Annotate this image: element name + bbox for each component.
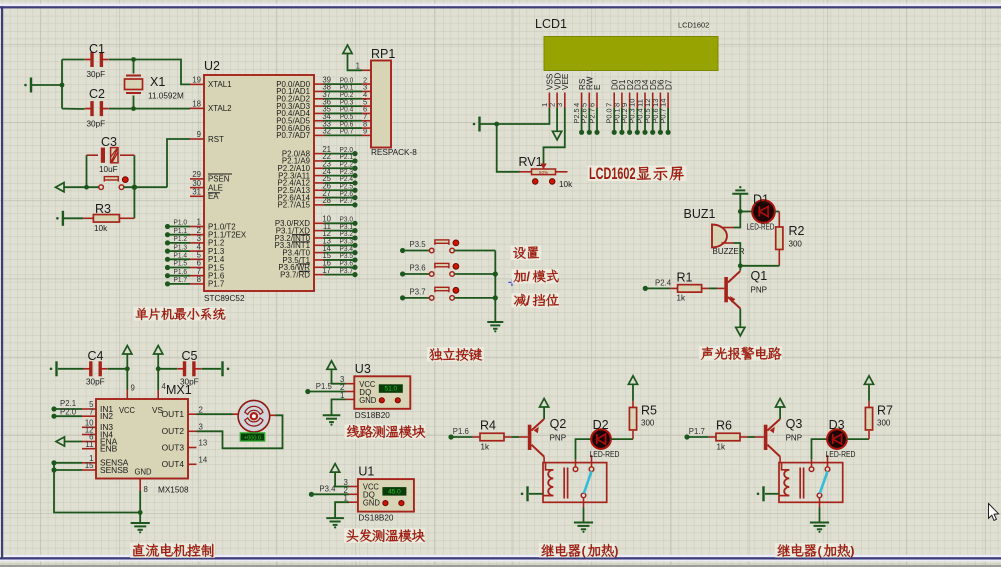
svg-text:300: 300 [789,240,803,249]
svg-text:C1: C1 [89,42,105,56]
svg-text:8: 8 [197,275,201,284]
LED D3 [812,418,856,460]
power arrow [540,399,549,420]
svg-text:P2.4: P2.4 [655,278,672,287]
net label P1.6 [448,427,472,439]
svg-text:P3.6: P3.6 [410,263,426,272]
crystal X1 [125,60,184,109]
wire [64,186,99,188]
ground (top) [732,186,748,194]
svg-text:C4: C4 [88,349,104,363]
MX1 left pins [82,400,129,475]
node junction [84,185,89,190]
LED D2 [576,418,620,460]
svg-text:LED-RED: LED-RED [747,223,775,232]
svg-text:LCD1602: LCD1602 [678,21,709,30]
U3 GND wire and ground [323,399,346,425]
svg-text:10uF: 10uF [99,165,118,174]
node junction [125,366,161,371]
OUT2 wire to motor [197,415,283,448]
resistor R7 [847,401,893,439]
power arrow VCC [123,346,132,369]
U3 pins [340,375,354,400]
P3 net wires [325,215,358,278]
wire [748,436,756,438]
svg-text:300: 300 [641,419,655,428]
svg-text:Q3: Q3 [786,417,803,431]
svg-text:P1.6: P1.6 [453,427,469,436]
motor driver MX1 body [96,383,192,495]
wire [740,265,779,267]
wire bus to ground [493,251,498,323]
svg-text:VEE: VEE [561,73,570,90]
svg-text:RP1: RP1 [371,47,395,61]
svg-text:DS18B20: DS18B20 [355,411,390,420]
VS pin 4 wire [158,369,166,399]
svg-text:30pF: 30pF [87,70,106,79]
svg-text:): ) [614,544,618,558]
relay switch blade [584,471,592,493]
svg-text:P1.7: P1.7 [208,280,224,289]
svg-text:OUT3: OUT3 [162,442,185,452]
ground [487,322,503,332]
svg-text:OUT2: OUT2 [162,426,185,436]
svg-text:11: 11 [85,440,93,449]
resistor R2 [776,212,805,266]
microcontroller U2 body [204,59,314,303]
svg-text:IN2: IN2 [100,411,113,421]
svg-text:14: 14 [199,456,208,465]
capacitor C2 [62,87,109,129]
power arrow (left) [56,183,65,192]
U3 DQ net wire [305,382,345,394]
svg-text:13: 13 [199,439,208,448]
svg-text:D1: D1 [753,193,769,207]
svg-text:LCD1: LCD1 [535,17,567,31]
svg-text:3: 3 [199,423,203,432]
svg-text:(: ( [582,544,586,558]
svg-text:6: 6 [587,103,596,107]
label 线路测温模块 [344,424,425,439]
label jia/moshi [512,269,559,284]
node junction [738,209,743,214]
svg-text:DS18B20: DS18B20 [358,514,393,523]
svg-text:R2: R2 [789,224,805,238]
svg-text:18: 18 [192,100,201,109]
VCC pin 9 wire [127,369,135,399]
origin marker [508,279,515,286]
wire [779,457,781,463]
U1 pins [344,478,358,503]
capacitor C4 [58,349,127,387]
wire [739,266,741,271]
label zhi liu dian ji kong zhi [130,543,215,558]
svg-text:3: 3 [555,103,564,107]
U1 indicator dots [383,501,404,506]
svg-text:U2: U2 [204,59,220,73]
svg-text:U1: U1 [358,465,374,479]
terminal [473,117,480,132]
ground [131,523,150,533]
U3 VCC wire and power arrow [327,361,346,384]
svg-text:31: 31 [192,188,201,197]
svg-text:ALE: ALE [208,183,223,192]
svg-text:P1.7: P1.7 [174,275,188,284]
node junction [131,57,136,111]
svg-text:RESPACK-8: RESPACK-8 [371,148,417,157]
svg-text:OUT1: OUT1 [162,409,185,419]
svg-text:50%: 50% [539,170,548,175]
wire [709,287,717,289]
power arrow for RP1 [343,45,362,70]
wire to ground [583,508,585,523]
svg-text:XTAL1: XTAL1 [208,80,232,89]
transistor Q1 (PNP) [717,269,767,309]
wire [734,194,741,228]
capacitor C3 (polarized) [87,135,135,174]
wire [109,60,190,85]
wire [61,60,63,109]
svg-text:Q1: Q1 [751,269,768,283]
svg-text:C5: C5 [182,349,198,363]
resistor R4 [473,419,512,452]
svg-text:ENB: ENB [100,444,118,454]
svg-text:P2.7: P2.7 [340,196,354,205]
label du li an jian [427,347,484,362]
U3 indicator dots [379,398,400,403]
wire to ground [819,508,821,523]
svg-text:/: / [526,293,530,308]
svg-text:RV1: RV1 [519,155,543,169]
svg-text:U3: U3 [355,362,371,376]
svg-text:9: 9 [131,384,135,393]
svg-text:P0.7: P0.7 [340,127,354,136]
svg-text:1k: 1k [717,443,726,452]
svg-text:XTAL2: XTAL2 [208,104,232,113]
relay switch blade [820,471,828,493]
ground [810,523,829,533]
transistor Q3 (PNP) [755,417,802,457]
OUT1 wire to motor [197,413,233,415]
GND pin 8 wire [140,479,148,524]
svg-text:45.0: 45.0 [388,488,401,495]
svg-text:300: 300 [877,419,891,428]
relay RL1 [543,455,607,507]
svg-text:): ) [850,544,854,558]
motor rpm display [240,433,264,441]
wire [739,309,741,328]
resistor pack RP1 [356,47,418,157]
U1 GND wire and ground [326,502,349,528]
motor [233,400,277,432]
button P3.6 [400,263,495,276]
wire [512,436,520,438]
svg-text:30pF: 30pF [87,120,106,129]
buzzer BUZ1 [684,207,745,256]
svg-text:P0.7/AD7: P0.7/AD7 [276,131,310,140]
LCD signal net labels and wires [572,108,671,135]
wire [109,108,190,110]
power arrow VS [154,346,163,369]
wire [133,155,135,218]
resistor R6 [709,419,748,452]
label LCD1602 xian shi ping [588,164,687,183]
label she zhi [511,246,542,261]
svg-text:GND: GND [135,468,152,477]
node junction [738,263,743,268]
terminal [56,211,63,226]
svg-text:LED-RED: LED-RED [590,450,620,459]
potentiometer RV1 [519,155,574,189]
wire [734,243,741,266]
wire [86,155,88,187]
terminal (coil) [521,486,543,501]
svg-text:X1: X1 [150,75,165,89]
svg-text:P3.7: P3.7 [340,266,354,275]
svg-text:OUT4: OUT4 [162,459,185,469]
VSS ground wire [480,108,550,124]
svg-text:PNP: PNP [786,434,802,443]
label dan pian ji zui xiao xi tong [134,307,226,321]
temperature module U3 body [354,362,410,420]
transistor Q2 (PNP) [519,417,566,457]
wire [124,186,167,188]
svg-text:GND: GND [363,499,380,508]
label sheng guang bao jing dian lu [699,346,782,361]
LCD1 display body [535,17,718,71]
svg-text:8: 8 [144,485,148,494]
svg-text:LED-RED: LED-RED [826,450,856,459]
svg-text:+000.0: +000.0 [244,435,261,441]
SENSA SENSB wires [51,460,140,512]
node junction [494,122,499,127]
reset button [99,177,128,190]
svg-text:P1.7: P1.7 [689,427,705,436]
svg-text:2: 2 [199,405,203,414]
node junction [132,185,137,190]
svg-text:30: 30 [192,179,201,188]
svg-text:10k: 10k [94,224,108,233]
svg-text:1k: 1k [677,294,686,303]
svg-text:R5: R5 [641,404,657,418]
svg-text:P0.7: P0.7 [659,108,668,123]
capacitor C1 [62,42,109,79]
svg-text:GND: GND [359,396,376,405]
svg-text:30pF: 30pF [86,378,105,387]
svg-text:7: 7 [89,407,93,416]
U2 left pins (stubs, numbers, names) [190,76,247,289]
P1 net wires [165,218,190,287]
svg-text:P3.7/RD: P3.7/RD [280,270,310,279]
svg-text:VCC: VCC [119,406,135,415]
resistor R1 [643,271,709,303]
svg-text:19: 19 [192,76,201,85]
svg-text:P3.5: P3.5 [410,240,427,249]
svg-text:P1.5: P1.5 [316,382,333,391]
svg-text:RST: RST [208,135,224,144]
U1 DQ net wire [309,485,349,497]
svg-text:P2.0: P2.0 [60,408,77,417]
temperature module U1 body [358,465,414,523]
relay RL2 [779,455,843,507]
power arrow (down) [736,327,745,336]
LCD pins (names, numbers, stubs) [540,73,674,108]
wire [775,211,780,213]
MX1 right pins [162,405,208,469]
svg-text:PNP: PNP [751,286,767,295]
svg-text:29: 29 [192,170,201,179]
svg-text:1k: 1k [481,443,490,452]
svg-text:4: 4 [162,382,167,391]
svg-text:D7: D7 [664,79,673,90]
svg-text:R6: R6 [716,419,732,433]
capacitor C5 [158,349,221,387]
svg-text:SENSB: SENSB [100,465,129,475]
label ji dian qi (jia re) [539,543,618,558]
U2 right pins (stubs, numbers, names) [274,75,331,279]
ground [574,523,593,533]
power arrow [628,376,637,401]
svg-text:P3.4: P3.4 [319,485,336,494]
button P3.7 [400,287,495,300]
node junction [138,510,143,515]
svg-text:D3: D3 [829,418,845,432]
svg-text:/: / [526,269,530,284]
terminal [50,361,57,376]
svg-text:D2: D2 [593,418,609,432]
label ji dian qi (jia re) [775,543,854,558]
resistor R5 [611,401,657,439]
svg-text:11.0592M: 11.0592M [148,92,184,101]
svg-text:STC89C52: STC89C52 [204,294,245,303]
svg-text:MX1508: MX1508 [158,486,189,495]
svg-text:BUZ1: BUZ1 [684,207,716,221]
node junction [60,83,65,88]
svg-text:15: 15 [85,461,94,470]
svg-text:R7: R7 [877,404,893,418]
net label P1.7 [684,427,708,439]
LED D1 [740,193,775,232]
svg-text:(: ( [818,544,822,558]
svg-text:C2: C2 [89,87,105,101]
svg-text:LCD1602: LCD1602 [589,164,636,183]
terminal (coil) [757,486,779,501]
wire [31,84,62,86]
svg-text:P2.7/A15: P2.7/A15 [278,201,311,210]
svg-text:30pF: 30pF [180,378,199,387]
U1 VCC wire and power arrow [331,464,350,487]
mouse cursor [989,504,999,521]
svg-text:14: 14 [659,99,668,107]
svg-text:R1: R1 [677,271,693,285]
label 头发测温模块 [344,528,425,543]
svg-text:PSEN: PSEN [208,175,230,184]
P2 net wires [325,145,358,208]
power arrow [776,399,785,420]
svg-text:10k: 10k [559,180,573,189]
svg-text:P3.7: P3.7 [410,287,426,296]
svg-text:PNP: PNP [550,434,566,443]
VDD power arrow (down) [553,108,562,140]
svg-text:R4: R4 [480,419,496,433]
button P3.5 [400,240,495,253]
svg-text:1: 1 [356,62,360,71]
terminal [223,361,230,376]
wire to RST [167,139,190,187]
power arrow ENA (left) [56,437,82,446]
svg-text:9: 9 [197,130,201,139]
U3 display [379,384,403,393]
resistor R3 [64,202,134,233]
svg-text:51.0: 51.0 [384,386,397,393]
P2.1 P2.0 net wires [51,399,82,419]
svg-text:P2.7: P2.7 [587,108,596,123]
wire [543,457,545,463]
terminal [24,78,31,93]
svg-text:Q2: Q2 [550,417,567,431]
VEE wire to RV1 wiper [544,108,565,164]
U1 display [382,487,406,496]
label jian/dangwei [512,293,559,308]
P0 bus wires to RP1 [325,75,368,135]
wire [497,124,520,172]
svg-text:EA: EA [208,192,219,201]
power arrow [864,376,873,401]
svg-text:E: E [593,84,602,90]
